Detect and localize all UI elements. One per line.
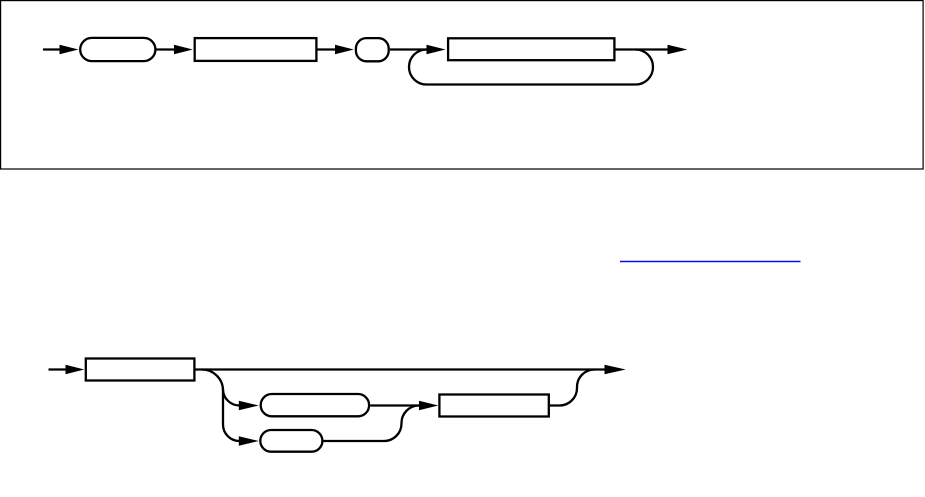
- arrowhead into nonterminal N1: [174, 45, 193, 55]
- nonterminal N2 (rectangle in loop): [448, 38, 614, 60]
- arrowhead into nonterminal N2: [427, 45, 446, 55]
- arrowhead into nonterminal N3: [66, 365, 85, 375]
- wire: T2 to N2: [390, 48, 428, 50]
- wire: T3 to N4: [370, 404, 419, 406]
- wire: T4 S-curve up to row2: [324, 406, 420, 442]
- nonterminal N4 (rectangle row2): [439, 395, 548, 417]
- terminal T3 (rounded pill row2): [261, 394, 369, 416]
- nonterminal N1 (rectangle): [195, 38, 317, 61]
- arrowhead into nonterminal N4: [419, 401, 438, 411]
- wire: N2 exit line: [616, 48, 669, 50]
- wire: branch descent to row3: [223, 389, 240, 441]
- terminal T2 (small oval): [356, 38, 389, 61]
- arrowhead diagram2 exit: [605, 365, 626, 375]
- nonterminal N3 (rectangle): [86, 359, 195, 381]
- syntax diagram frame box: [1, 1, 924, 169]
- wire: T1 to N1: [157, 48, 175, 50]
- arrowhead into terminal T3: [239, 401, 259, 411]
- wire: bypass line to exit: [196, 368, 606, 370]
- arrowhead into terminal T4: [239, 436, 259, 446]
- repeat loop around N2: [409, 49, 653, 84]
- wire: diagram1 entry line: [43, 48, 61, 50]
- arrowhead diagram1 exit: [668, 45, 688, 55]
- wire: diagram2 entry line: [49, 368, 67, 370]
- arrowhead into terminal T1: [60, 45, 79, 55]
- terminal T4 (small pill row3): [260, 430, 322, 452]
- wire: branch descent to row2: [202, 370, 240, 406]
- hyperlink underline: [620, 261, 801, 263]
- wire: N4 S-curve up to bypass line: [550, 370, 595, 406]
- arrowhead into terminal T2: [335, 45, 354, 55]
- wire: N1 to T2: [318, 48, 336, 50]
- terminal T1 (rounded pill): [80, 38, 155, 61]
